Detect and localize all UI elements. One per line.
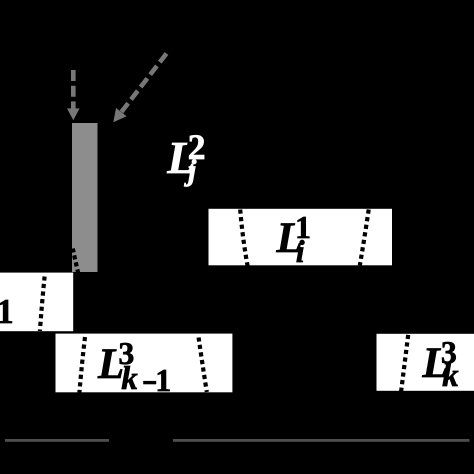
dotted line right of box L_{k-1}^3 — [199, 338, 207, 393]
box left (cut off, label ..1) — [0, 273, 73, 332]
dotted line in box L_k^3 — [401, 335, 408, 392]
label L_j^2 — [0, 0, 1, 1]
bottom gray line left segment — [5, 439, 109, 442]
minus sign of L_{k-1}^3 subscript — [143, 381, 156, 384]
dotted line right of box L_i^1 — [360, 210, 369, 266]
dotted line left of box L_i^1 — [240, 210, 247, 267]
label ..1 in left box (cut) — [0, 0, 1, 1]
box L_i^1 — [209, 209, 393, 265]
label L_i^1 — [0, 0, 1, 1]
dotted cut line on gray bar bottom-left — [73, 249, 79, 277]
dotted line in left box — [40, 277, 45, 332]
gray bar (layer segment) — [72, 123, 98, 272]
box L_k^3 — [377, 334, 474, 391]
label L_k^3 — [0, 0, 1, 1]
label L_{k-1}^3 — [0, 0, 1, 1]
box L_{k-1}^3 — [56, 334, 233, 393]
dotted line left of box L_{k-1}^3 — [79, 337, 85, 393]
dashed arrow vertical — [67, 70, 80, 120]
bottom gray line right segment — [173, 439, 470, 442]
dashed arrow diagonal — [113, 54, 166, 123]
